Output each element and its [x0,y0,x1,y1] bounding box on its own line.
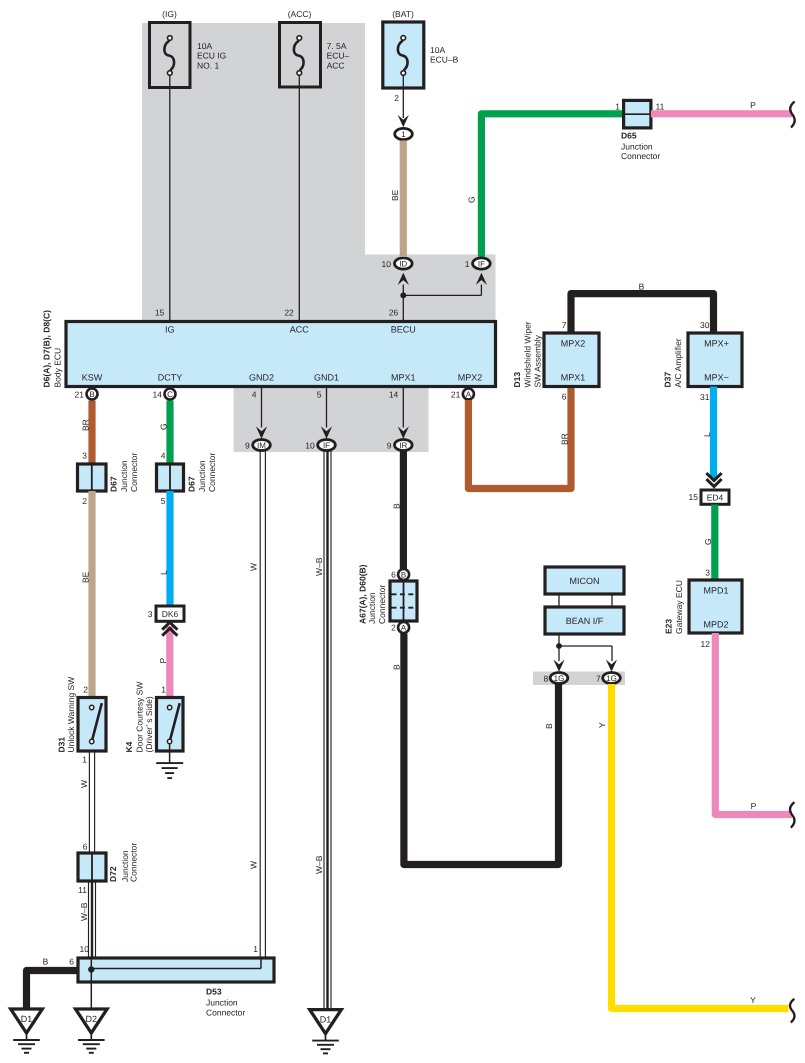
wire W from IM oval to D53 pin 1 [259,451,261,958]
fuse (BAT) 10A ECU-B [383,9,459,88]
svg-text:MPX1: MPX1 [561,373,586,383]
svg-text:MPX2: MPX2 [458,373,483,383]
svg-text:DK6: DK6 [162,609,179,619]
svg-text:(Driver’ s Side): (Driver’ s Side) [144,696,154,752]
svg-text:D13: D13 [512,372,522,388]
svg-text:W–B: W–B [314,855,324,874]
svg-text:Junction: Junction [197,460,207,492]
svg-text:5: 5 [161,496,166,506]
svg-text:3: 3 [705,568,710,578]
wire from D53 to ground D2 [90,970,92,1010]
junction oval IM pin 9 [253,440,271,451]
svg-text:(BAT): (BAT) [392,9,414,19]
break symbol on wire P (top right) [790,102,794,128]
svg-text:7: 7 [596,674,601,684]
gray background strip below body ECU [234,385,429,452]
svg-text:Windshield Wiper: Windshield Wiper [523,321,533,387]
svg-text:B: B [43,957,49,967]
svg-text:15: 15 [155,308,165,318]
junction connector D65 [615,100,664,161]
svg-text:26: 26 [389,308,399,318]
svg-text:A: A [401,624,407,633]
svg-text:1: 1 [401,130,406,139]
svg-text:MPD2: MPD2 [703,620,728,630]
junction connector D67 (left) [78,451,140,507]
arrow up into IF oval [476,273,487,285]
wire L from D67 to connector DK6 [166,491,173,606]
svg-text:W: W [79,780,89,788]
svg-text:K4: K4 [124,741,134,752]
svg-text:C: C [167,390,173,399]
svg-text:BE: BE [80,571,90,583]
arrow into 1G pin 8 [553,660,564,672]
wire G from pin C to junction connector D67 [166,401,173,465]
svg-text:P: P [751,801,757,811]
svg-text:8: 8 [543,674,548,684]
svg-text:BECU: BECU [391,325,416,335]
break symbol on wire Y [790,999,794,1023]
wire BE from D67 to unlock warning SW D31 [88,491,95,697]
svg-text:D65: D65 [621,131,637,141]
svg-text:21: 21 [75,390,85,400]
svg-text:2: 2 [83,685,88,695]
svg-text:5: 5 [317,390,322,400]
wire GND2 pin 4 to IM oval [261,388,263,428]
svg-text:B: B [401,571,406,580]
fuse (ACC) 7.5A ECU-ACC [280,9,350,87]
svg-text:1: 1 [253,944,258,954]
junction connector D53 [78,944,274,1017]
svg-text:Connector: Connector [377,585,387,624]
svg-text:D37: D37 [663,372,673,388]
wire from ACC fuse to body ECU pin 22 [298,75,300,321]
wire MPX1 pin 14 to IR oval [402,388,404,428]
svg-text:Gateway ECU: Gateway ECU [674,580,684,634]
pin circle A (MPX2 pin 21) [463,389,474,400]
svg-text:ACC: ACC [290,325,310,335]
wire P from E23 pin 12 to right edge [715,633,792,815]
wire BE from oval 1 to oval ID [400,141,407,258]
svg-text:10: 10 [305,441,315,451]
svg-text:NO. 1: NO. 1 [197,60,219,70]
body ECU D6(A), D7(B), D8(C) [41,310,495,388]
double chevron into DK6 [162,622,177,629]
svg-text:G: G [703,538,713,545]
svg-text:11: 11 [656,102,665,112]
break symbol on wire P (bottom) [790,802,794,827]
svg-text:Junction: Junction [119,460,129,492]
svg-text:B: B [639,282,645,292]
svg-text:W: W [249,861,259,869]
svg-text:L: L [702,432,712,437]
svg-text:D6(A), D7(B), D8(C): D6(A), D7(B), D8(C) [41,310,51,388]
A/C amplifier D37 [663,320,742,402]
svg-text:MPX−: MPX− [704,373,729,383]
svg-text:B: B [544,723,554,729]
svg-text:E23: E23 [664,619,674,634]
svg-text:ID: ID [399,260,407,269]
wire L from D37 pin 31 to ED4 [710,387,717,479]
svg-text:Y: Y [597,722,607,728]
arrow into 1G pin 7 [606,660,617,672]
junction oval IR pin 9 [395,440,413,451]
svg-text:MPX2: MPX2 [561,339,586,349]
svg-text:2: 2 [82,496,87,506]
svg-text:L: L [158,570,168,575]
svg-text:15: 15 [689,492,699,502]
junction connector D67 (second) [157,451,217,507]
svg-text:10: 10 [80,944,90,954]
svg-text:ECU IG: ECU IG [197,51,226,61]
connector oval 1 (BAT feed) [395,128,413,139]
pin circle B (KSW pin 21) [87,389,98,400]
svg-text:BEAN I/F: BEAN I/F [566,616,604,626]
pin oval B of A67 [398,569,409,580]
gray background block (power source area) [142,23,365,322]
svg-text:B: B [391,503,401,509]
svg-text:D1: D1 [21,1014,33,1024]
door courtesy SW K4 (driver's side) [124,682,183,753]
svg-text:B: B [392,664,402,670]
svg-text:SW Assembly: SW Assembly [533,334,543,387]
wire W-B from D72 to D53 pin 10 [88,881,90,958]
svg-text:21: 21 [451,390,461,400]
svg-text:1: 1 [615,102,620,112]
links between MICON and BEAN I/F [558,594,560,607]
svg-text:Junction: Junction [206,997,238,1007]
wire GND1 pin 5 to IF oval [326,388,328,428]
svg-text:1G: 1G [606,674,617,683]
svg-text:10A: 10A [197,41,212,51]
wire from BECU pin 26 up to ID/IF junction ovals [402,285,404,322]
gray strip behind 1G connectors [533,672,625,686]
svg-text:W–B: W–B [314,557,324,576]
svg-text:D53: D53 [206,987,222,997]
svg-text:IG: IG [165,325,175,335]
svg-text:4: 4 [161,451,166,461]
svg-text:D2: D2 [86,1014,98,1024]
svg-text:1: 1 [82,755,87,765]
svg-text:DCTY: DCTY [158,373,183,383]
svg-text:7. 5A: 7. 5A [327,41,347,51]
windshield wiper SW assembly D13 [512,320,599,402]
svg-text:3: 3 [148,609,153,619]
svg-text:3: 3 [82,451,87,461]
svg-text:Unlock Warning SW: Unlock Warning SW [66,677,76,753]
svg-text:10A: 10A [430,45,445,55]
ground below K4 [169,744,171,763]
svg-text:Connector: Connector [129,843,139,882]
arrow up into ID oval [398,273,409,285]
svg-text:14: 14 [389,390,399,400]
svg-text:D31: D31 [56,737,66,753]
svg-text:Connector: Connector [206,1007,245,1017]
junction oval 1G pin 7 [603,673,621,684]
double chevron into ED4 [706,473,721,480]
svg-text:6: 6 [562,392,567,402]
svg-text:2: 2 [391,623,396,633]
gray background extension (ID/IF junction area) [365,255,496,323]
svg-text:B: B [89,390,94,399]
svg-text:BR: BR [559,433,569,445]
svg-text:ECU–B: ECU–B [430,55,459,65]
svg-text:6: 6 [83,842,88,852]
svg-text:6: 6 [391,570,396,580]
wire from IG fuse to body ECU pin 15 [169,75,171,321]
wire G from ED4 to gateway ECU E23 pin 3 [711,505,718,581]
svg-text:Y: Y [750,995,756,1005]
svg-text:2: 2 [394,93,399,103]
svg-text:D72: D72 [108,866,118,882]
svg-text:(ACC): (ACC) [288,9,312,19]
wire Y from 1G pin 7 to right edge [612,684,789,1009]
svg-text:ED4: ED4 [707,493,724,503]
svg-text:A: A [466,390,472,399]
svg-text:W–B: W–B [79,902,89,921]
svg-text:14: 14 [153,390,163,400]
svg-text:D67: D67 [186,476,196,492]
wire P from D65 to right edge [651,110,792,117]
svg-text:A/C Amplifier: A/C Amplifier [673,338,683,387]
junction oval IF pin 10 [318,440,336,451]
svg-text:P: P [750,100,756,110]
svg-text:GND1: GND1 [314,373,339,383]
svg-text:11: 11 [78,885,87,895]
wire B from D13 pin 7 to A/C amplifier D37 pin 30 [571,294,714,333]
svg-text:22: 22 [284,308,294,318]
svg-text:D1: D1 [320,1015,332,1025]
wire BR from pin A to windshield wiper SW D13 pin 6 [468,387,571,489]
svg-text:6: 6 [69,957,74,967]
svg-text:IR: IR [399,441,407,450]
ground D1 (center, W-B wire) [310,1010,342,1034]
wire B from IR oval to junction connector A67/D60 [400,451,407,569]
junction oval 1G pin 8 [550,673,568,684]
gateway ECU E23 [664,568,742,650]
svg-text:MPD1: MPD1 [703,586,728,596]
BEAN I/F block [545,607,624,634]
MICON block [545,567,624,594]
svg-text:W: W [249,563,259,571]
svg-text:7: 7 [562,320,567,330]
svg-text:G: G [467,196,477,203]
svg-text:BR: BR [80,419,90,431]
ground D1 (left) [11,1009,43,1033]
svg-text:9: 9 [387,441,392,451]
junction connector A67(A), D60(B) [358,564,417,624]
svg-text:31: 31 [700,392,710,402]
svg-text:10: 10 [382,259,392,269]
wire P from DK6 to door courtesy SW K4 [166,626,173,697]
svg-text:IF: IF [323,441,330,450]
connector DK6 pin 3 [148,606,184,621]
unlock warning SW D31 [56,677,106,765]
wire BR from pin B to junction connector D67 [88,401,95,465]
svg-text:1: 1 [161,685,166,695]
svg-text:1G: 1G [554,674,565,683]
svg-text:Body ECU: Body ECU [52,348,62,388]
svg-text:Connector: Connector [129,453,139,492]
svg-text:IM: IM [257,441,266,450]
wire G from IF oval to D65 junction connector [481,114,623,257]
pin circle C (DCTY pin 14) [165,389,176,400]
svg-text:Connector: Connector [621,151,660,161]
svg-text:MPX+: MPX+ [704,339,729,349]
svg-text:ECU–: ECU– [327,51,350,61]
svg-text:Door Courtesy SW: Door Courtesy SW [134,682,144,753]
svg-text:4: 4 [252,390,257,400]
svg-text:(IG): (IG) [162,9,177,19]
wire W-B from IF oval to ground D1 [323,451,325,1010]
svg-text:1: 1 [465,259,470,269]
svg-text:G: G [158,423,168,430]
svg-text:Junction: Junction [367,592,377,624]
fuse (IG) 10A ECU IG NO. 1 [150,9,227,88]
wires from BEAN I/F to 1G ovals [558,634,560,661]
svg-text:D67: D67 [109,476,119,492]
wire from BAT fuse pin 2 to connector oval 1 [402,75,404,118]
wire W from D31 to junction connector D72 [88,752,90,854]
svg-text:P: P [158,658,168,664]
svg-text:BE: BE [390,189,400,201]
connector ED4 pin 15 [689,490,729,504]
svg-text:A67(A), D60(B): A67(A), D60(B) [358,564,368,624]
svg-text:30: 30 [700,320,710,330]
svg-text:MICON: MICON [570,576,600,586]
svg-text:GND2: GND2 [249,373,274,383]
svg-text:9: 9 [245,441,250,451]
junction connector D72 [78,842,139,896]
wire B from D53 pin 6 to ground D1 [27,971,79,1010]
junction oval IF pin 1 [473,258,491,269]
svg-text:Connector: Connector [207,453,217,492]
svg-text:12: 12 [701,639,711,649]
pin oval A of A67 [398,622,409,633]
svg-text:KSW: KSW [82,373,103,383]
svg-text:MPX1: MPX1 [391,373,416,383]
svg-text:ACC: ACC [327,60,345,70]
svg-text:IF: IF [478,260,485,269]
svg-text:Junction: Junction [621,141,653,151]
junction oval ID pin 10 [395,258,413,269]
wire B from A67 to 1G oval pin 8 [404,634,559,865]
ground D2 [76,1009,108,1033]
